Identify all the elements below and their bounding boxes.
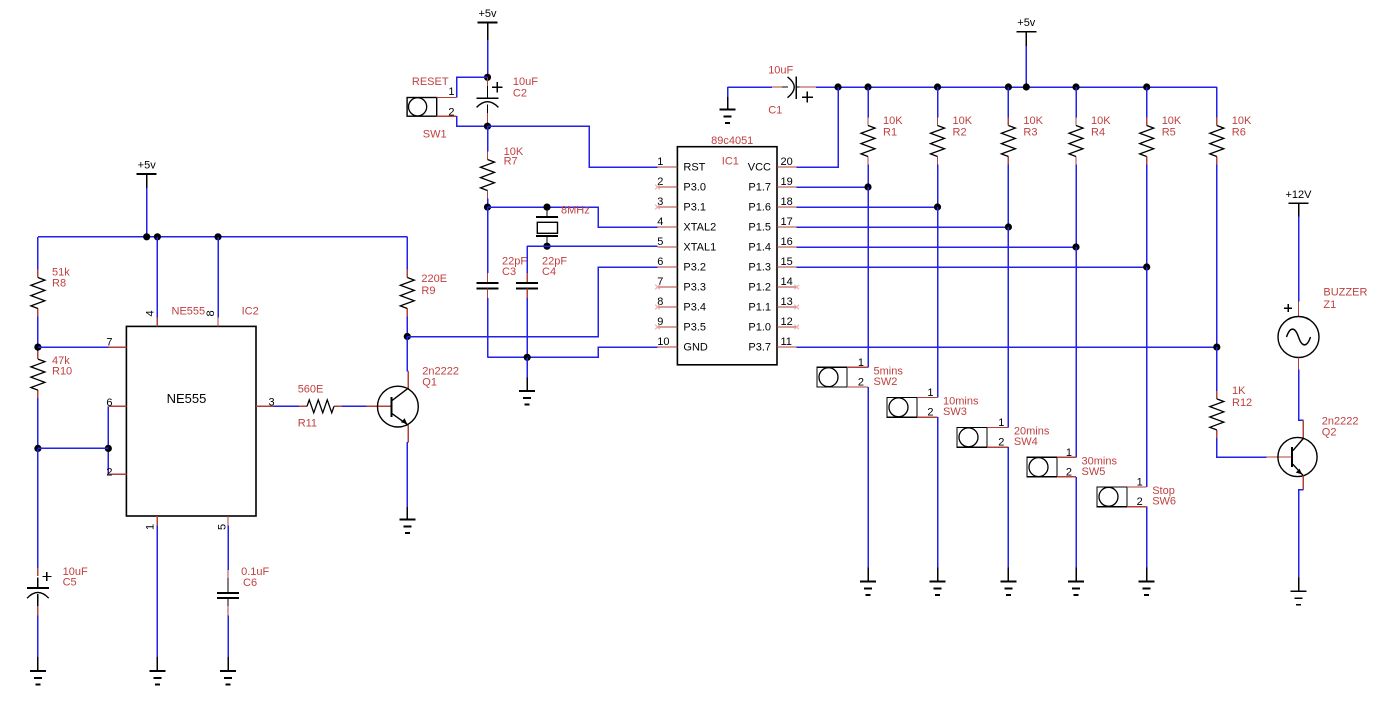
wire [527,245,657,247]
junction [154,233,161,240]
wire [146,188,148,237]
wire [457,77,488,97]
svg-text:C5: C5 [63,577,77,589]
wire [797,346,1217,348]
wire [867,387,869,568]
lead Q1 base [367,405,392,407]
resistor R2 [931,115,973,165]
resistor R7 [481,146,524,199]
svg-text:20: 20 [781,156,793,168]
junction [1072,243,1079,250]
svg-text:8MHz: 8MHz [561,205,590,217]
svg-text:13: 13 [781,296,793,308]
wire [487,298,489,357]
wire [1298,203,1300,216]
junction [1005,83,1012,90]
wire [38,346,109,348]
svg-text:RESET: RESET [412,76,449,88]
svg-text:1: 1 [145,524,157,530]
lead Q2 emitter [1302,476,1304,490]
wire [1075,165,1077,248]
svg-text:P1.4: P1.4 [748,241,771,253]
svg-text:220E: 220E [421,273,447,285]
svg-text:10K: 10K [883,115,903,127]
junction [484,204,491,211]
junction [543,243,550,250]
svg-text:P3.5: P3.5 [683,321,706,333]
svg-text:16: 16 [781,236,793,248]
junction [1143,83,1150,90]
buzzer Z1 [1278,287,1367,370]
lead Q2 collector [1302,420,1304,438]
transistor Q1 [378,366,460,428]
junction [524,354,531,361]
transistor Q2 [1278,416,1359,477]
wire [1146,165,1148,268]
svg-text:1: 1 [998,417,1004,429]
svg-text:2: 2 [106,467,112,479]
switch SW2 [817,357,903,389]
switch SW1 [407,76,457,141]
svg-text:4: 4 [657,216,663,228]
junction [404,333,411,340]
svg-text:1: 1 [1066,447,1072,459]
wire [156,526,158,657]
svg-text:560E: 560E [298,384,324,396]
junction [105,445,112,452]
svg-text:P3.4: P3.4 [683,301,706,313]
wire [867,187,869,367]
power +5v (right) [1016,17,1036,46]
resistor R10 [31,351,72,398]
wire [816,86,1217,88]
svg-text:P1.0: P1.0 [748,321,771,333]
wire [487,207,489,273]
wire [406,317,408,337]
capacitor C2 [477,76,539,123]
wire [37,615,39,657]
svg-text:5: 5 [657,236,663,248]
svg-text:C3: C3 [502,266,516,278]
wire [487,23,489,41]
wire [37,398,39,448]
switch SW5 [1027,447,1117,479]
svg-text:SW2: SW2 [874,376,898,388]
svg-text:1: 1 [448,86,454,98]
resistor R6 [1210,115,1252,165]
junction [214,233,221,240]
svg-text:2: 2 [998,437,1004,449]
wire [37,237,39,270]
resistor R9 [400,270,447,317]
svg-text:P3.7: P3.7 [748,341,771,353]
svg-text:18: 18 [781,196,793,208]
svg-text:P1.7: P1.7 [748,181,771,193]
svg-text:2: 2 [448,106,454,118]
svg-text:10: 10 [657,336,669,348]
capacitor C1 [768,65,816,117]
lead Q1 emitter [407,425,409,442]
wire [1299,369,1304,420]
junction [1213,344,1220,351]
svg-text:11: 11 [781,336,792,348]
capacitor C6 [217,566,270,615]
svg-text:4: 4 [145,310,157,316]
svg-text:C1: C1 [768,104,782,116]
svg-text:2: 2 [858,377,864,389]
wire [488,207,658,227]
wire [38,447,108,449]
svg-text:RST: RST [683,161,705,173]
svg-text:R10: R10 [52,366,72,378]
wire [867,87,869,118]
wire [1299,490,1304,578]
svg-text:SW5: SW5 [1082,466,1106,478]
resistor R1 [861,115,903,165]
resistor R12 [1210,385,1252,438]
power +5v (left) [137,160,157,189]
svg-text:P3.1: P3.1 [683,201,706,213]
svg-text:+5v: +5v [1017,17,1036,29]
svg-text:10uF: 10uF [768,65,793,77]
svg-text:15: 15 [781,256,793,268]
wire [407,267,657,337]
svg-text:XTAL1: XTAL1 [683,241,716,253]
svg-text:R5: R5 [1162,127,1176,139]
svg-text:Z1: Z1 [1323,299,1336,311]
capacitor C3 [477,256,528,299]
wire [156,237,158,318]
svg-text:10K: 10K [1162,115,1182,127]
switch SW6 [1097,477,1176,509]
wire [37,448,39,567]
junction [143,233,150,240]
ground [930,568,946,595]
junction [34,344,41,351]
wire [146,174,148,188]
capacitor C5 [27,566,88,615]
wire [406,442,408,507]
svg-text:10K: 10K [953,115,973,127]
svg-text:R2: R2 [953,127,967,139]
svg-text:P3.3: P3.3 [683,281,706,293]
wire [526,298,528,357]
wire [37,317,39,352]
svg-text:C6: C6 [243,577,257,589]
wire [937,417,939,567]
svg-text:6: 6 [106,397,112,409]
wire [797,266,1147,268]
lead Q2 base [1267,456,1292,458]
junction [1072,83,1079,90]
wire [1146,507,1148,568]
wire [407,370,408,372]
wire [107,406,109,474]
wire [1025,46,1027,87]
junction [484,123,491,130]
wire [407,441,408,443]
wire [1146,267,1148,487]
svg-text:P1.1: P1.1 [748,301,771,313]
svg-text:R8: R8 [52,278,66,290]
svg-text:R11: R11 [298,418,317,430]
wire [1007,227,1009,428]
ground [1000,568,1016,595]
wire [937,165,939,208]
svg-text:XTAL2: XTAL2 [683,221,716,233]
svg-text:R1: R1 [883,127,897,139]
svg-text:SW3: SW3 [943,406,967,418]
wire [274,405,299,407]
svg-text:P1.2: P1.2 [748,281,771,293]
svg-text:10K: 10K [1232,115,1252,127]
wire [797,87,838,167]
wire [797,186,868,188]
svg-text:SW6: SW6 [1152,496,1176,508]
junction [834,83,841,90]
wire [38,236,407,238]
svg-text:1: 1 [1137,477,1143,489]
svg-text:IC1: IC1 [722,156,739,168]
wire [1007,87,1009,118]
svg-text:19: 19 [781,176,793,188]
svg-text:Q2: Q2 [1322,427,1337,439]
wire [1075,477,1077,568]
svg-text:2: 2 [927,407,933,419]
svg-text:P1.3: P1.3 [748,261,771,273]
resistor R4 [1069,115,1111,165]
wire [227,615,229,657]
svg-text:1: 1 [858,357,864,369]
resistor R11 [298,384,342,430]
svg-text:+5v: +5v [478,8,497,20]
wire [457,116,488,126]
wire [1007,165,1009,228]
svg-text:6: 6 [657,256,663,268]
junction [864,183,871,190]
wire [728,86,773,88]
wire [937,87,939,118]
wire [727,87,729,97]
svg-text:R7: R7 [504,156,518,168]
ground [1291,577,1307,604]
svg-text:BUZZER: BUZZER [1323,287,1367,299]
svg-text:C4: C4 [542,266,556,278]
wire [797,226,1009,228]
svg-text:R12: R12 [1232,397,1252,409]
svg-text:+5v: +5v [138,160,157,172]
svg-text:8: 8 [205,310,217,316]
svg-text:P3.0: P3.0 [683,181,706,193]
resistor R8 [31,267,70,317]
wire [487,40,489,77]
junction [1143,263,1150,270]
wire [526,246,528,273]
wire [1216,347,1218,391]
ground [30,657,46,684]
ground [519,378,535,405]
svg-text:10K: 10K [1091,115,1111,127]
wire [526,357,528,377]
wire [1298,217,1300,302]
ground [1068,568,1084,595]
svg-text:P3.2: P3.2 [683,261,706,273]
resistor R5 [1140,115,1182,165]
svg-text:7: 7 [106,336,112,348]
wire [406,337,408,372]
op-amp timer IC2 NE555 [106,306,274,531]
svg-text:R9: R9 [421,285,435,297]
crystal 8MHz [536,205,590,247]
microcontroller IC1 89c4051 [655,135,799,365]
svg-text:14: 14 [781,276,793,288]
svg-text:R4: R4 [1091,127,1105,139]
ground [149,657,165,684]
resistor R3 [1001,115,1043,165]
wire [867,165,869,188]
junction [1005,223,1012,230]
junction [484,74,491,81]
svg-text:GND: GND [683,341,708,353]
svg-text:+12V: +12V [1286,189,1313,201]
wire [797,206,938,208]
wire [342,405,367,407]
svg-text:10uF: 10uF [513,76,538,88]
svg-text:Q1: Q1 [422,377,437,389]
wire [1007,447,1009,567]
wire [488,347,658,357]
junction [934,203,941,210]
svg-text:IC2: IC2 [242,306,259,318]
wire [1216,87,1218,118]
ground [220,657,236,684]
svg-text:12: 12 [781,316,793,328]
ground [1139,568,1155,595]
power +5v (top) [478,8,498,37]
wire [937,207,939,398]
wire [227,526,229,570]
svg-text:SW1: SW1 [423,128,447,140]
svg-text:2: 2 [1066,466,1072,478]
svg-text:2: 2 [1137,496,1143,508]
wire [1217,438,1267,457]
svg-text:17: 17 [781,216,793,228]
svg-text:R3: R3 [1023,127,1037,139]
wire [217,237,219,318]
wire [1075,247,1077,457]
junction [1023,83,1030,90]
svg-text:5: 5 [217,524,229,530]
power +12V [1286,189,1313,218]
svg-text:VCC: VCC [748,161,771,173]
svg-text:R6: R6 [1232,127,1246,139]
junction [864,83,871,90]
svg-text:P1.5: P1.5 [748,221,771,233]
svg-text:10K: 10K [1023,115,1043,127]
junction [934,83,941,90]
capacitor C4 [516,256,567,299]
wire [1075,87,1077,118]
wire [487,126,489,151]
switch SW3 [887,387,979,419]
wire [488,126,658,167]
ground [860,568,876,595]
lead Q1 collector [407,371,409,388]
wire [487,199,489,208]
wire [1216,165,1218,348]
svg-text:P1.6: P1.6 [748,201,771,213]
wire [406,237,408,270]
wire [797,246,1076,248]
svg-text:1: 1 [927,387,933,399]
junction [543,204,550,211]
junction [34,445,41,452]
wire [1146,87,1148,118]
svg-text:NE555: NE555 [167,391,207,406]
switch SW4 [957,417,1050,449]
ground [720,97,736,123]
ground [399,507,415,533]
svg-text:SW4: SW4 [1014,436,1038,448]
svg-text:89c4051: 89c4051 [711,135,753,147]
svg-text:1: 1 [657,156,663,168]
svg-text:C2: C2 [513,87,527,99]
svg-text:1K: 1K [1232,385,1246,397]
svg-text:NE555: NE555 [172,306,206,318]
wire [1025,32,1027,46]
